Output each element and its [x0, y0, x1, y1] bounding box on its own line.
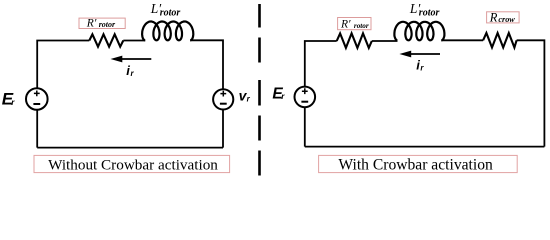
svg-text:crow: crow	[498, 15, 515, 24]
svg-text:R: R	[489, 10, 498, 24]
svg-text:rotor: rotor	[160, 8, 181, 19]
svg-text:With Crowbar activation: With Crowbar activation	[338, 157, 493, 174]
svg-text:Without Crowbar activation: Without Crowbar activation	[48, 157, 218, 174]
svg-text:R′: R′	[86, 18, 97, 30]
svg-text:rotor: rotor	[99, 20, 116, 29]
svg-text:R′: R′	[340, 18, 351, 30]
svg-text:rotor: rotor	[354, 22, 369, 30]
svg-text:rotor: rotor	[419, 8, 440, 19]
